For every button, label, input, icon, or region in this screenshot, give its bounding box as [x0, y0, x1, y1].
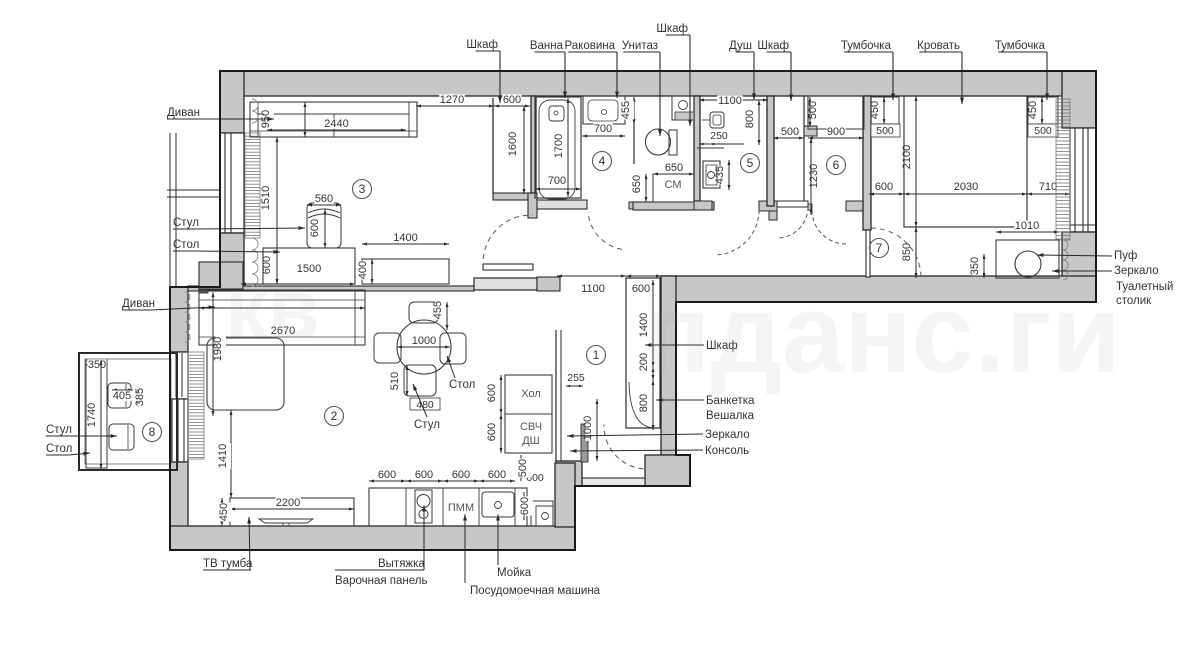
- dim 500 corner: [520, 455, 522, 481]
- svg-text:800: 800: [744, 110, 756, 128]
- radiator hatch room2: [185, 292, 190, 302]
- svg-text:500: 500: [807, 101, 819, 119]
- entrance right wall block: [645, 455, 690, 486]
- dim 1010: [996, 231, 1059, 233]
- dim 600 micro: [500, 414, 502, 453]
- WC bottom wall: [633, 202, 714, 210]
- dim 600 corner v: [523, 492, 525, 520]
- dining table: [397, 320, 451, 374]
- svg-text:350: 350: [88, 359, 106, 371]
- dim 1000 console: [596, 399, 598, 461]
- svg-text:Вешалка: Вешалка: [706, 410, 755, 422]
- dim 350 pouf: [983, 254, 985, 278]
- room6 closet band: [808, 96, 864, 129]
- hall right exterior wall column: [661, 276, 676, 455]
- svg-text:1600: 1600: [507, 132, 519, 156]
- svg-text:250: 250: [710, 130, 728, 142]
- arc room5 door: [716, 210, 759, 255]
- partition bath/WC: [633, 119, 635, 164]
- watermark: [225, 262, 1121, 396]
- pouf: [1015, 251, 1041, 277]
- svg-text:255: 255: [567, 372, 585, 384]
- bathtub: [535, 97, 581, 198]
- svg-text:Вытяжка: Вытяжка: [378, 558, 425, 570]
- svg-text:2440: 2440: [324, 118, 348, 130]
- dim 1410: [230, 410, 232, 498]
- closet room3 bottom stub: [493, 193, 528, 200]
- room2 left outer wall lower: [170, 462, 188, 527]
- svg-text:Кровать: Кровать: [917, 40, 960, 52]
- svg-text:Зеркало: Зеркало: [1114, 265, 1159, 277]
- hall wardrobe curve: [629, 382, 653, 428]
- svg-text:1100: 1100: [581, 283, 605, 295]
- svg-text:400: 400: [357, 261, 369, 279]
- closet room3 1600 dim: [523, 106, 525, 194]
- svg-text:кв: кв: [225, 262, 320, 357]
- kitchen counters: [369, 488, 527, 526]
- svg-text:1980: 1980: [212, 337, 224, 361]
- svg-text:Диван: Диван: [122, 298, 155, 310]
- dim 1100 room5: [699, 99, 768, 101]
- dim 800 hall: [652, 380, 654, 430]
- svg-text:Банкетка: Банкетка: [706, 395, 755, 407]
- dim 1980: [212, 292, 214, 416]
- svg-text:Пуф: Пуф: [1114, 250, 1137, 262]
- svg-text:710: 710: [1039, 181, 1057, 193]
- sink bath: [583, 96, 625, 124]
- hob: [415, 490, 432, 523]
- svg-text:Раковина: Раковина: [564, 40, 615, 52]
- room3 number: [353, 180, 372, 199]
- svg-text:2200: 2200: [276, 497, 300, 509]
- svg-text:Мойка: Мойка: [497, 567, 532, 579]
- room4 number: [593, 152, 612, 171]
- svg-text:600: 600: [519, 497, 531, 515]
- svg-text:Стол: Стол: [173, 239, 199, 251]
- cabinet 1400x400 room3: [362, 259, 449, 284]
- svg-text:2030: 2030: [954, 181, 978, 193]
- svg-text:ТВ тумба: ТВ тумба: [203, 558, 253, 570]
- svg-text:Диван: Диван: [167, 107, 200, 119]
- svg-text:1000: 1000: [582, 416, 594, 440]
- dim 1500: [241, 283, 355, 285]
- room6 gray pillar: [804, 126, 817, 136]
- svg-text:1510: 1510: [260, 186, 272, 210]
- room2 window to balcony: [170, 399, 188, 462]
- dim 455 chair: [446, 302, 448, 330]
- svg-text:Тумбочка: Тумбочка: [995, 40, 1046, 52]
- room3-room2 sliding door leaf: [483, 264, 533, 270]
- closet500 bottom sill: [777, 201, 808, 207]
- dim 600-2030-710: [869, 193, 904, 195]
- room5 sink: [710, 112, 724, 128]
- dim 350 balcony: [85, 364, 107, 366]
- svg-text:5: 5: [747, 156, 754, 170]
- bed: [904, 96, 1027, 227]
- wall WC/room5: [694, 96, 700, 201]
- svg-text:1010: 1010: [1015, 220, 1039, 232]
- arc room6 door: [812, 210, 846, 244]
- dim 450 right nightstand: [1041, 97, 1043, 124]
- svg-text:Хол: Хол: [521, 388, 541, 400]
- dim 600 armchair: [324, 209, 326, 248]
- svg-text:1400: 1400: [393, 232, 417, 244]
- dim 700 sink: [582, 135, 625, 137]
- room6 door jamb: [846, 201, 863, 211]
- balcony table: [86, 360, 107, 468]
- radiator hatch room3: [252, 99, 258, 111]
- svg-text:850: 850: [901, 243, 913, 261]
- entrance left wall block: [556, 461, 582, 486]
- svg-text:Туалетный: Туалетный: [1116, 281, 1173, 293]
- svg-text:500: 500: [517, 459, 529, 477]
- chair top: [409, 302, 438, 323]
- hall wardrobe: [626, 278, 660, 428]
- balcony door opening: [170, 352, 188, 399]
- kitchen sink: [482, 492, 514, 517]
- dim 2440 sofa: [267, 129, 406, 131]
- svg-text:8: 8: [149, 425, 156, 439]
- left outer wall upper (room 3): [220, 71, 244, 133]
- svg-text:600: 600: [378, 469, 396, 481]
- room6 number: [827, 156, 846, 175]
- svg-text:650: 650: [665, 162, 683, 174]
- arc room3 door: [483, 215, 533, 259]
- svg-text:Стол: Стол: [449, 379, 475, 391]
- dim 1510: [276, 137, 278, 284]
- right outer wall upper (bedroom): [1062, 71, 1096, 128]
- wall room6/bedroom7: [863, 96, 871, 230]
- svg-text:700: 700: [594, 123, 612, 135]
- sofa room2 chaise: [207, 338, 284, 410]
- dim 2200: [230, 508, 354, 510]
- svg-text:Шкаф: Шкаф: [757, 40, 789, 52]
- dim 455 sink: [633, 97, 635, 124]
- svg-text:1740: 1740: [86, 403, 98, 427]
- kitchen corner wall band: [555, 463, 575, 527]
- arc bath door: [588, 212, 622, 250]
- dim 1000 table: [397, 346, 450, 348]
- wall room5/closet500: [767, 96, 774, 206]
- svg-text:450: 450: [218, 503, 230, 521]
- dim 385: [137, 387, 139, 407]
- dim 1270+600 top: [416, 105, 494, 107]
- svg-text:Шкаф: Шкаф: [656, 23, 688, 35]
- dim 800 room5: [758, 100, 760, 145]
- svg-text:Душ: Душ: [729, 40, 752, 52]
- svg-text:600: 600: [452, 469, 470, 481]
- dim 1700 bath: [567, 98, 569, 197]
- svg-text:Стол: Стол: [46, 443, 72, 455]
- room5 number: [741, 154, 760, 173]
- svg-text:7: 7: [876, 241, 883, 255]
- dim 950 sofa: [304, 102, 306, 137]
- room3-room2 door sill: [474, 278, 537, 290]
- left outer wall below window (room 3): [220, 233, 244, 290]
- dim 900 room6: [808, 137, 864, 139]
- svg-text:900: 900: [827, 126, 845, 138]
- svg-text:Тумбочка: Тумбочка: [841, 40, 892, 52]
- wall room3/room2: [188, 286, 474, 291]
- dim 500 v room6: [809, 97, 811, 127]
- svg-text:500: 500: [1034, 125, 1052, 137]
- dim 600 fridge: [500, 375, 502, 414]
- svg-text:600: 600: [503, 94, 521, 106]
- svg-text:1100: 1100: [718, 95, 742, 107]
- svg-text:600: 600: [415, 469, 433, 481]
- wall chunk left of room3 door: [199, 262, 243, 289]
- svg-text:1000: 1000: [412, 335, 436, 347]
- svg-text:Стул: Стул: [414, 419, 440, 431]
- entrance door arc: [604, 425, 643, 469]
- svg-text:600: 600: [488, 469, 506, 481]
- svg-text:СВЧ: СВЧ: [520, 421, 542, 433]
- svg-text:450: 450: [869, 101, 881, 119]
- fridge column: [505, 375, 552, 453]
- sofa room2: [199, 290, 365, 345]
- dim 400: [371, 259, 373, 284]
- dim 1100 hall: [557, 275, 626, 277]
- dressing table: [996, 240, 1059, 278]
- balcony chair top: [108, 383, 131, 408]
- dim 560 armchair: [307, 204, 341, 206]
- svg-text:600: 600: [486, 423, 498, 441]
- exterior slab lines left: [169, 133, 171, 287]
- room5 door jamb left: [694, 201, 712, 210]
- svg-text:2100: 2100: [901, 145, 913, 169]
- bath door leaf sill: [537, 200, 587, 209]
- svg-text:1270: 1270: [440, 94, 464, 106]
- svg-text:пданс.ги: пданс.ги: [643, 271, 1121, 396]
- dim 480 box: [410, 398, 440, 410]
- outer top wall: [220, 71, 1096, 96]
- balcony outline: [79, 353, 177, 470]
- dim 250: [699, 143, 744, 145]
- dim 600 table room3: [276, 248, 278, 284]
- arc closet500 door: [777, 207, 808, 238]
- svg-text:ПММ: ПММ: [448, 502, 474, 514]
- svg-text:510: 510: [389, 372, 401, 390]
- armchair room3: [307, 203, 341, 248]
- svg-text:Консоль: Консоль: [705, 445, 749, 457]
- svg-text:Варочная панель: Варочная панель: [335, 575, 427, 587]
- svg-text:500: 500: [781, 126, 799, 138]
- svg-text:6: 6: [833, 158, 840, 172]
- svg-text:650: 650: [631, 175, 643, 193]
- right outer wall lower (bedroom): [1062, 232, 1096, 302]
- svg-text:2: 2: [331, 409, 338, 423]
- tv set: [259, 519, 313, 523]
- svg-text:700: 700: [548, 175, 566, 187]
- dim 600 hall: [626, 275, 661, 277]
- bedroom door arc: [871, 228, 921, 278]
- dim 650 h: [653, 173, 694, 175]
- svg-text:1230: 1230: [808, 164, 820, 188]
- hall left wall: [555, 330, 557, 461]
- dim 1400: [362, 243, 449, 245]
- shower tray: [697, 147, 724, 149]
- svg-text:450: 450: [1027, 101, 1039, 119]
- dim 435: [728, 160, 730, 190]
- washing machine zone: [653, 174, 694, 202]
- bottom outer wall right section: [661, 276, 1096, 302]
- dim 500 closet500: [773, 137, 804, 139]
- room2 bottom outer wall: [170, 526, 575, 550]
- dim 850 bed: [915, 227, 917, 278]
- dim 510 chair: [406, 365, 408, 396]
- svg-text:480: 480: [416, 399, 434, 411]
- room5 door jamb right: [759, 201, 777, 211]
- bath door jamb: [629, 202, 636, 209]
- dim 700 bath: [535, 188, 581, 190]
- toilet: [646, 129, 671, 155]
- dim 1740: [100, 360, 102, 469]
- chair left: [374, 333, 401, 363]
- bedroom door leaf: [866, 230, 870, 277]
- dim 2670: [199, 307, 365, 309]
- window right (bedroom): [1070, 128, 1096, 232]
- svg-text:Шкаф: Шкаф: [466, 39, 498, 51]
- svg-text:столик: столик: [1116, 295, 1152, 307]
- svg-text:ДШ: ДШ: [522, 435, 540, 447]
- svg-text:4: 4: [599, 154, 606, 168]
- dim 1400 wardrobe: [652, 280, 654, 367]
- svg-text:455: 455: [620, 101, 632, 119]
- svg-text:600: 600: [875, 181, 893, 193]
- wall piece right of sill: [537, 277, 560, 291]
- closet500 right wall: [803, 96, 805, 206]
- svg-text:3: 3: [359, 182, 366, 196]
- svg-text:500: 500: [876, 125, 894, 137]
- svg-text:1700: 1700: [553, 134, 565, 158]
- svg-text:1: 1: [593, 348, 600, 362]
- outer contour emphasis: [170, 71, 1096, 550]
- closet room3 left wall: [492, 98, 494, 194]
- entrance threshold: [582, 478, 645, 486]
- nightstand right: [1028, 97, 1058, 124]
- room7 number: [870, 239, 889, 258]
- dim 450 tv: [221, 498, 223, 526]
- chair right: [440, 333, 466, 364]
- sofa room3: [250, 102, 417, 137]
- hall console: [581, 424, 588, 462]
- svg-text:Стул: Стул: [46, 424, 72, 436]
- wall pillar below closet: [528, 193, 537, 218]
- svg-text:435: 435: [714, 166, 726, 184]
- dim 450 left nightstand: [883, 97, 885, 124]
- svg-text:1410: 1410: [217, 444, 229, 468]
- WC top cabinet: [672, 96, 694, 120]
- dim 650 v: [645, 174, 647, 202]
- svg-text:Зеркало: Зеркало: [705, 429, 750, 441]
- svg-text:600: 600: [486, 384, 498, 402]
- svg-text:Посудомоечная машина: Посудомоечная машина: [470, 585, 601, 597]
- svg-text:560: 560: [315, 193, 333, 205]
- dim 405: [112, 389, 133, 391]
- room2 left outer wall upper: [170, 287, 188, 352]
- svg-text:Унитаз: Унитаз: [622, 40, 658, 52]
- dim 1230 room6: [810, 138, 812, 215]
- dim 500 box right: [1028, 124, 1058, 137]
- svg-text:385: 385: [134, 388, 146, 406]
- room1 number: [587, 346, 606, 365]
- svg-text:800: 800: [638, 394, 650, 412]
- chair bottom: [404, 365, 436, 396]
- svg-text:600: 600: [309, 219, 321, 237]
- bedroom wardrobe hatch: [1056, 99, 1070, 240]
- room8 number: [143, 423, 162, 442]
- corner unit: [531, 501, 553, 526]
- window left (room 3): [220, 133, 244, 233]
- svg-text:Стул: Стул: [173, 217, 199, 229]
- room2 number: [325, 407, 344, 426]
- nightstand left: [871, 97, 899, 124]
- table 1500 room3: [263, 248, 355, 284]
- dim 200: [652, 367, 654, 380]
- svg-text:Ванна: Ванна: [530, 40, 564, 52]
- svg-text:СМ: СМ: [665, 179, 682, 191]
- dim 500 box left: [871, 124, 900, 137]
- svg-text:455: 455: [432, 301, 444, 319]
- balcony chair bottom: [109, 424, 134, 450]
- wall room3/bath: [531, 96, 536, 193]
- kitchen dims 600: [369, 480, 406, 482]
- tv console: [230, 498, 354, 526]
- dim 2100 bed: [915, 96, 917, 227]
- svg-text:405: 405: [113, 390, 131, 402]
